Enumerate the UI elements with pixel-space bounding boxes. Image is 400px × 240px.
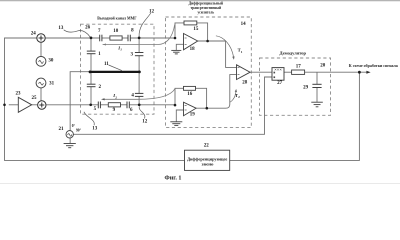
svg-text:0°: 0°	[72, 124, 76, 128]
svg-text:20: 20	[320, 64, 326, 69]
svg-text:22: 22	[204, 144, 210, 149]
svg-text:14: 14	[241, 22, 247, 27]
svg-text:13: 13	[58, 26, 64, 31]
svg-text:2: 2	[114, 95, 117, 99]
svg-text:Выходной канал ММГ: Выходной канал ММГ	[97, 17, 137, 21]
svg-text:13: 13	[92, 127, 98, 132]
svg-text:усилитель: усилитель	[198, 10, 215, 15]
svg-text:23: 23	[16, 92, 22, 97]
svg-text:15: 15	[193, 27, 199, 32]
svg-text:25: 25	[32, 96, 38, 101]
svg-text:12: 12	[142, 120, 148, 125]
svg-text:К схеме обработки сигнала: К схеме обработки сигнала	[349, 64, 398, 68]
svg-text:Фиг. 1: Фиг. 1	[165, 175, 182, 182]
svg-text:Демодулятор: Демодулятор	[280, 51, 307, 56]
svg-text:19: 19	[190, 113, 196, 118]
svg-text:31: 31	[49, 82, 55, 87]
svg-text:24: 24	[31, 31, 37, 36]
svg-text:16: 16	[187, 92, 193, 97]
svg-text:звено: звено	[202, 162, 214, 167]
svg-text:30: 30	[48, 59, 54, 64]
svg-text:27: 27	[277, 81, 283, 86]
svg-text:10: 10	[113, 29, 119, 34]
svg-text:11: 11	[104, 62, 109, 67]
svg-text:17: 17	[296, 65, 302, 70]
svg-text:28: 28	[242, 80, 248, 85]
svg-text:12: 12	[149, 10, 155, 15]
svg-text:29: 29	[303, 86, 309, 91]
svg-text:26: 26	[85, 25, 91, 30]
svg-text:21: 21	[59, 127, 65, 132]
svg-text:90°: 90°	[76, 129, 82, 133]
svg-text:18: 18	[190, 47, 196, 52]
